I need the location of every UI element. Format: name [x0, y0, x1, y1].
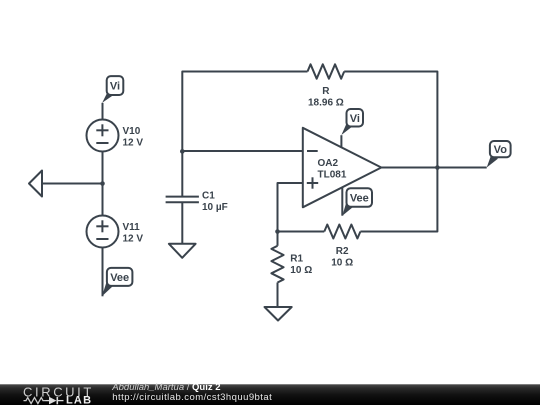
wire feedback loop left vertical [182, 72, 307, 152]
svg-text:18.96 Ω: 18.96 Ω [308, 98, 344, 109]
svg-text:10 Ω: 10 Ω [331, 258, 353, 269]
wire node to R2 [278, 231, 325, 233]
svg-text:http://circuitlab.com/cst3hquu: http://circuitlab.com/cst3hquu9btat [112, 392, 272, 403]
net flag Vi (left input) [102, 76, 123, 103]
op-amp OA2 [303, 128, 382, 208]
svg-text:TL081: TL081 [318, 170, 347, 181]
junction node at output [435, 165, 440, 170]
voltage source V11 [87, 216, 144, 248]
svg-text:LAB: LAB [66, 395, 92, 405]
footer title line [111, 382, 220, 393]
junction node between V10 and V11 [100, 181, 105, 186]
CircuitLab logo diode [46, 397, 64, 405]
footer url line [112, 392, 272, 403]
junction node at C1 top [180, 149, 185, 154]
capacitor C1 [166, 151, 228, 243]
svg-text:12 V: 12 V [123, 138, 144, 149]
svg-text:R: R [322, 86, 330, 97]
ground below R1 [265, 307, 292, 321]
footer bar [0, 384, 540, 405]
op-amp V+ power pin [340, 135, 342, 147]
wire feedback loop right [344, 72, 437, 168]
ground below C1 [169, 244, 196, 258]
svg-text:R1: R1 [290, 254, 303, 265]
svg-text:Vi: Vi [110, 81, 120, 93]
svg-text:V11: V11 [123, 222, 141, 233]
resistor R [308, 64, 345, 108]
wire V11 to Vee flag [102, 248, 104, 297]
CircuitLab logo wordmark CIRCUIT [23, 384, 94, 399]
svg-text:V10: V10 [123, 126, 141, 137]
wire op-amp plus input [278, 183, 303, 232]
svg-text:10 µF: 10 µF [202, 202, 228, 213]
wire node to op-amp minus input [182, 150, 302, 152]
op-amp V- power pin [341, 187, 343, 215]
junction node R1/R2 [275, 229, 280, 234]
net flag Vo (output) [487, 141, 511, 168]
svg-text:Vi: Vi [350, 113, 360, 125]
net flag Vee (left) [102, 268, 132, 296]
CircuitLab logo LAB [66, 395, 92, 405]
wire op-amp output [381, 167, 486, 169]
wire R2 to output branch [360, 168, 437, 232]
svg-text:10 Ω: 10 Ω [290, 265, 312, 276]
antenna symbol (left) [29, 171, 42, 197]
net flag Vee (op-amp V-) [342, 188, 372, 216]
svg-text:12 V: 12 V [123, 234, 144, 245]
svg-text:OA2: OA2 [318, 158, 339, 169]
svg-text:R2: R2 [336, 246, 349, 257]
CircuitLab logo resistor zigzag [24, 398, 46, 404]
svg-text:Vee: Vee [350, 193, 369, 205]
voltage source V10 [87, 120, 144, 152]
svg-text:Vo: Vo [494, 144, 508, 156]
svg-text:C1: C1 [202, 191, 215, 202]
wire V10 to V11 [102, 152, 104, 216]
net flag Vi (op-amp V+) [341, 109, 363, 135]
svg-text:Vee: Vee [110, 272, 129, 284]
wire Vi to V10 [102, 103, 104, 120]
wire antenna to node [42, 183, 103, 185]
resistor R2 [324, 225, 360, 269]
resistor R1 [271, 232, 312, 308]
